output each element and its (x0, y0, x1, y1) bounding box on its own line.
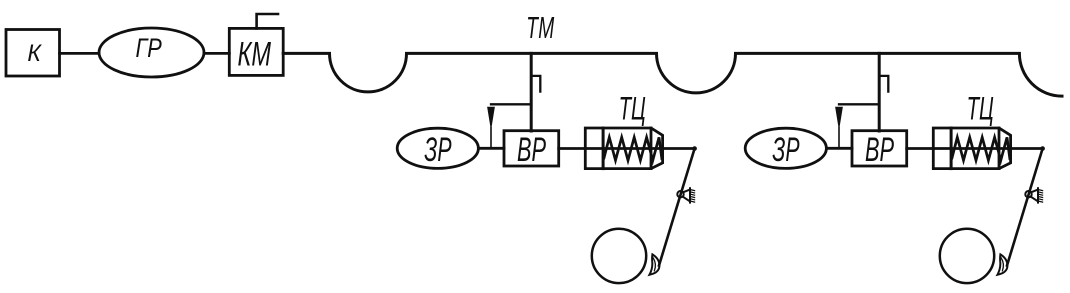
svg-text:ЗР: ЗР (772, 131, 799, 169)
shoe 1 inner line (653, 258, 655, 271)
check valve wedge 2 (836, 107, 843, 127)
wheel 2 (940, 229, 994, 283)
svg-text:ТЦ: ТЦ (967, 91, 994, 127)
wedge 2 drop wire (838, 128, 840, 149)
wire ZR2 to VR2 (826, 147, 852, 150)
lever pivot 1 (677, 188, 694, 202)
TC2 rear cap line (998, 128, 1001, 169)
brake shoe 2 (997, 254, 1007, 274)
svg-text:ВР: ВР (517, 131, 546, 169)
svg-text:К: К (27, 40, 42, 67)
svg-text:ЗР: ЗР (424, 131, 451, 169)
TC1 piston (602, 128, 605, 169)
TC2 spring (952, 137, 1010, 160)
wheel 1 (592, 229, 646, 283)
brake lever 2 (1007, 149, 1043, 266)
air distributor VR2 box (852, 131, 907, 166)
wire VR2 to TC2 and piston rod 2 (907, 147, 1043, 150)
TC1 spring (604, 137, 662, 160)
reserve reservoir ZR2 ellipse (745, 128, 826, 168)
rod joint 2 (1040, 146, 1045, 151)
wire VR1 to TC1 and piston rod 1 (559, 147, 695, 150)
brake cylinder TC1 body (585, 128, 662, 169)
brake valve KM box (229, 28, 283, 75)
wire K to GR (60, 52, 100, 55)
shoe 2 inner line (1001, 258, 1003, 271)
stop cock 1 hook (533, 76, 541, 92)
main reservoir GR ellipse (99, 28, 204, 77)
svg-text:ТЦ: ТЦ (619, 91, 646, 127)
TC2 piston (950, 128, 953, 169)
reserve reservoir ZR1 ellipse (397, 128, 478, 168)
TC1 rear cap line (650, 128, 653, 169)
brake lever 1 (659, 149, 695, 266)
svg-text:ГР: ГР (136, 33, 163, 63)
KM handle (257, 14, 278, 28)
rod joint 1 (692, 146, 697, 151)
svg-text:КМ: КМ (238, 35, 272, 73)
branch pipe 1 from TM to VR1 (530, 53, 533, 131)
branch pipe 2 from TM to VR2 (878, 53, 881, 131)
lever pivot 2 (1025, 188, 1042, 202)
check valve wedge 1 (488, 107, 495, 127)
svg-text:ВР: ВР (865, 131, 894, 169)
brake cylinder TC2 body (933, 128, 1010, 169)
charging branch 1 wire (491, 103, 531, 105)
wedge 1 drop wire (490, 128, 492, 149)
brake pipe TM line with hose dips (283, 53, 1062, 96)
charging branch 2 wire (839, 103, 879, 105)
brake shoe 1 (649, 254, 659, 274)
compressor K box (6, 30, 60, 77)
wire GR to KM (204, 52, 229, 55)
air distributor VR1 box (504, 131, 559, 166)
stop cock 2 hook (881, 76, 889, 92)
svg-text:ТМ: ТМ (526, 10, 554, 45)
wire ZR1 to VR1 (478, 147, 504, 150)
